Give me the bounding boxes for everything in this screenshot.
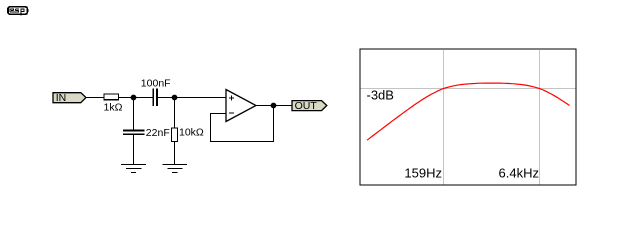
svg-text:OUT: OUT <box>295 100 318 112</box>
svg-text:100nF: 100nF <box>141 78 171 90</box>
svg-text:-3dB: -3dB <box>367 88 394 103</box>
svg-text:IN: IN <box>56 92 66 104</box>
svg-text:22nF: 22nF <box>146 127 170 139</box>
svg-text:1kΩ: 1kΩ <box>104 102 123 114</box>
svg-text:159Hz: 159Hz <box>404 166 442 181</box>
svg-text:6.4kHz: 6.4kHz <box>499 166 539 181</box>
svg-text:10kΩ: 10kΩ <box>179 127 204 139</box>
